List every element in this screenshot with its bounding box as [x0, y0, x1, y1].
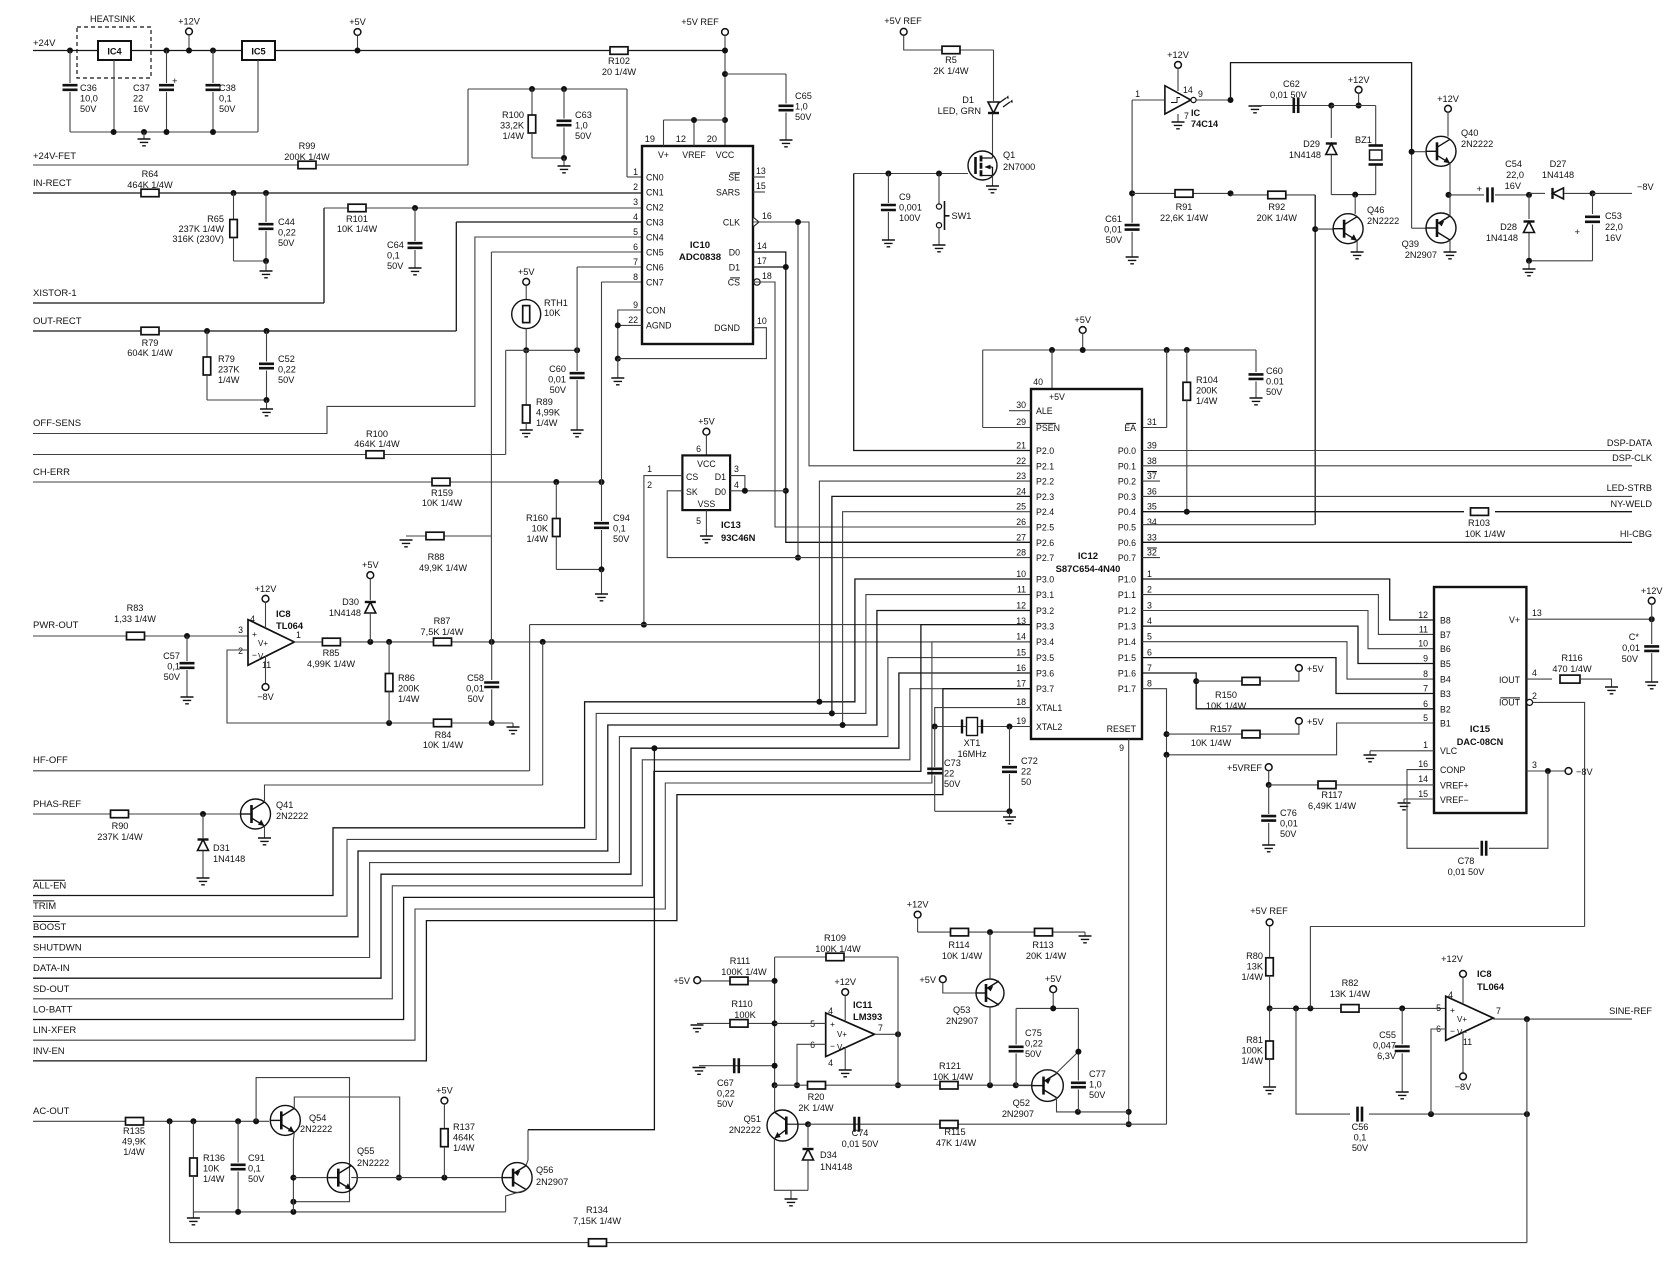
svg-text:R83: R83	[127, 603, 144, 613]
wire divider riser to RTH1 node	[505, 350, 507, 454]
svg-text:0,22: 0,22	[1025, 1038, 1043, 1048]
svg-text:16V: 16V	[1605, 233, 1622, 243]
svg-text:+: +	[1574, 227, 1580, 238]
wire CS to P2.5	[753, 282, 1031, 527]
wire P1.7 node drop to R115 line	[1166, 755, 1168, 1124]
wire D1 stub	[753, 266, 786, 268]
ground Q41 emitter	[264, 826, 266, 838]
resistor R134	[589, 1239, 607, 1247]
wire IC4 ground lead	[113, 60, 115, 132]
capacitor C73	[934, 727, 936, 768]
svg-text:13K 1/4W: 13K 1/4W	[1330, 989, 1371, 999]
svg-text:1,33 1/4W: 1,33 1/4W	[114, 614, 156, 624]
svg-text:Q46: Q46	[1367, 205, 1384, 215]
resistor R20	[808, 1082, 826, 1090]
net C74 R115 line	[808, 1123, 1167, 1125]
svg-text:VCC: VCC	[716, 150, 735, 160]
wire RTH1 node	[506, 349, 577, 351]
wire Q51 emitter to ground rail	[774, 1139, 808, 1191]
svg-text:R101: R101	[346, 214, 368, 224]
svg-text:237K: 237K	[218, 364, 240, 374]
svg-text:5: 5	[1147, 632, 1152, 642]
junction R79 shunt top	[204, 328, 210, 334]
svg-text:10K: 10K	[544, 308, 561, 318]
svg-text:RTH1: RTH1	[544, 298, 568, 308]
svg-text:49,9K: 49,9K	[122, 1136, 147, 1146]
svg-text:CN3: CN3	[646, 218, 664, 228]
svg-text:5: 5	[696, 516, 701, 526]
svg-text:P1.0: P1.0	[1118, 575, 1136, 585]
svg-text:LIN-XFER: LIN-XFER	[33, 1025, 76, 1036]
capacitor C62	[1255, 105, 1331, 107]
wire C54 to D27	[1495, 194, 1529, 196]
svg-text:+5V: +5V	[698, 417, 715, 427]
junction Q51 base D34	[805, 1121, 811, 1127]
svg-text:DSP-DATA: DSP-DATA	[1607, 438, 1653, 448]
svg-text:−8V: −8V	[1637, 182, 1654, 192]
svg-text:C36: C36	[80, 83, 97, 93]
svg-text:26: 26	[1016, 517, 1026, 527]
svg-text:C61: C61	[1105, 214, 1122, 224]
svg-text:50V: 50V	[944, 779, 961, 789]
diode D31	[202, 814, 204, 838]
svg-text:R5: R5	[945, 55, 957, 65]
wire CLK to P2.1	[753, 222, 1031, 466]
capacitor C94	[601, 482, 603, 521]
wire +5VREF node R117	[1265, 764, 1272, 771]
resistor R136	[192, 1121, 194, 1158]
svg-text:C65: C65	[795, 91, 812, 101]
wire IC5 ground lead	[257, 60, 259, 132]
wire DGND route	[618, 328, 767, 359]
resistor R91 line	[1132, 192, 1230, 194]
svg-text:50V: 50V	[164, 672, 181, 682]
svg-text:0,1: 0,1	[219, 93, 232, 103]
svg-text:P0.3: P0.3	[1118, 492, 1136, 502]
wire CN7 riser to CH-ERR node	[602, 281, 643, 283]
svg-text:464K 1/4W: 464K 1/4W	[354, 439, 400, 449]
svg-text:50V: 50V	[1266, 387, 1283, 397]
svg-text:2: 2	[1147, 585, 1152, 595]
svg-text:C77: C77	[1089, 1069, 1106, 1079]
net R20 line	[775, 1084, 898, 1086]
svg-text:50V: 50V	[387, 261, 404, 271]
svg-text:V+: V+	[1457, 1015, 1467, 1024]
svg-text:LO-BATT: LO-BATT	[33, 1005, 73, 1016]
svg-text:27: 27	[1016, 532, 1026, 542]
ground C65	[780, 140, 793, 147]
svg-text:7: 7	[1184, 111, 1189, 121]
svg-text:B8: B8	[1440, 616, 1451, 626]
svg-text:237K 1/4W: 237K 1/4W	[179, 224, 225, 234]
power +5V terminal IC13	[703, 428, 710, 435]
svg-text:PWR-OUT: PWR-OUT	[33, 620, 79, 631]
svg-text:C54: C54	[1505, 159, 1522, 169]
svg-text:SK: SK	[686, 487, 698, 497]
wire C65 branch	[725, 73, 786, 75]
svg-text:2: 2	[647, 480, 652, 490]
svg-text:8: 8	[1423, 669, 1428, 679]
svg-text:6: 6	[633, 242, 638, 252]
svg-text:4: 4	[1532, 668, 1537, 678]
wire Q52 collector to C77 node	[1057, 1052, 1079, 1073]
svg-text:+5V: +5V	[349, 17, 366, 27]
svg-text:0,22: 0,22	[278, 364, 296, 374]
wire EA tie	[1166, 350, 1168, 428]
svg-text:DGND: DGND	[714, 323, 740, 333]
svg-text:1,0: 1,0	[575, 120, 588, 130]
capacitor C56	[1358, 1107, 1363, 1122]
svg-text:14: 14	[1016, 632, 1026, 642]
svg-text:49,9K 1/4W: 49,9K 1/4W	[419, 563, 467, 573]
svg-text:0,01: 0,01	[548, 374, 566, 384]
svg-text:C44: C44	[278, 217, 295, 227]
svg-text:P3.0: P3.0	[1036, 575, 1054, 585]
svg-text:R100: R100	[502, 110, 524, 120]
svg-text:B1: B1	[1440, 719, 1451, 729]
svg-text:50V: 50V	[468, 694, 485, 704]
resistor R90	[111, 810, 129, 818]
resistor R113	[1035, 928, 1053, 936]
svg-text:SD-OUT: SD-OUT	[33, 984, 70, 995]
resistor R101	[324, 207, 642, 209]
svg-text:1/4W: 1/4W	[1196, 396, 1218, 406]
svg-text:+12V: +12V	[1167, 50, 1190, 60]
svg-text:16MHz: 16MHz	[957, 749, 987, 759]
svg-text:RESET: RESET	[1107, 724, 1137, 734]
svg-text:1: 1	[296, 630, 301, 640]
svg-text:22: 22	[1021, 766, 1031, 776]
svg-text:−: −	[252, 650, 257, 660]
power +5V terminal	[354, 29, 361, 36]
wire D28-C53 bottom tie	[1529, 260, 1593, 262]
ground R113	[1084, 932, 1086, 936]
svg-text:32: 32	[1147, 548, 1157, 558]
svg-text:0,01 50V: 0,01 50V	[1270, 90, 1308, 100]
wire bottom rail	[193, 1211, 505, 1213]
svg-text:0,1: 0,1	[1354, 1132, 1367, 1142]
net SINE-REF output	[1493, 1018, 1632, 1020]
svg-text:1/4W: 1/4W	[1242, 1056, 1264, 1066]
svg-text:C57: C57	[163, 651, 180, 661]
wire C56 branch	[1296, 1008, 1350, 1114]
svg-text:0,01: 0,01	[1280, 818, 1298, 828]
junction C57 top	[184, 633, 190, 639]
resistor R92	[1231, 194, 1316, 196]
capacitor C75	[1015, 1008, 1017, 1044]
pin IC10 top pins 19 12 20	[663, 120, 665, 146]
svg-text:3: 3	[734, 464, 739, 474]
net DSP-DATA	[1142, 450, 1632, 452]
svg-text:29: 29	[1016, 417, 1026, 427]
wire +5VREF vertical to IC10 VCC	[724, 36, 726, 147]
svg-text:50V: 50V	[248, 1174, 265, 1184]
ground crystal	[1009, 811, 1011, 817]
svg-text:0,1: 0,1	[167, 661, 180, 671]
svg-text:P3.3: P3.3	[1036, 622, 1054, 632]
svg-text:10K 1/4W: 10K 1/4W	[933, 1072, 974, 1082]
svg-text:1N4148: 1N4148	[1486, 233, 1518, 243]
svg-text:1: 1	[647, 464, 652, 474]
svg-text:11: 11	[1419, 624, 1428, 634]
resistor R150 pullup	[1196, 680, 1281, 682]
svg-text:1/4W: 1/4W	[203, 1174, 225, 1184]
capacitor C60 micro	[1255, 350, 1257, 372]
wire Q52 net	[1016, 1085, 1032, 1087]
wire Q51 collector from R20 node	[774, 1085, 776, 1112]
svg-text:C*: C*	[1629, 632, 1640, 642]
svg-text:10K: 10K	[203, 1163, 220, 1173]
svg-text:B5: B5	[1440, 659, 1451, 669]
svg-text:10K 1/4W: 10K 1/4W	[942, 951, 983, 961]
power +5V terminal IC12	[1079, 327, 1086, 334]
svg-text:Q41: Q41	[276, 800, 293, 810]
svg-text:9: 9	[633, 300, 638, 310]
svg-text:93C46N: 93C46N	[721, 532, 756, 543]
transistor Q55 2N2222	[327, 1163, 357, 1193]
svg-text:18: 18	[762, 271, 772, 281]
svg-text:100K: 100K	[734, 1010, 756, 1020]
svg-text:10,0: 10,0	[80, 93, 98, 103]
net R134 line	[170, 1242, 1527, 1244]
svg-text:4: 4	[1448, 990, 1453, 1000]
svg-text:P3.2: P3.2	[1036, 606, 1054, 616]
svg-text:R136: R136	[203, 1153, 225, 1163]
svg-text:14: 14	[1418, 774, 1428, 784]
svg-text:+5V: +5V	[1074, 315, 1091, 325]
svg-text:C58: C58	[467, 673, 484, 683]
wire C61 input node	[1131, 100, 1133, 223]
svg-text:50V: 50V	[1622, 654, 1639, 664]
wire P0.5 riser	[1142, 524, 1314, 526]
svg-text:74C14: 74C14	[1191, 119, 1219, 129]
transistor Q41 2N2222	[241, 799, 271, 829]
wire IC11 -input	[797, 1044, 826, 1085]
wire Q1 gate line	[854, 173, 968, 175]
svg-text:34: 34	[1147, 517, 1157, 527]
wire Q54 collector loop	[294, 1097, 399, 1178]
svg-text:100K 1/4W: 100K 1/4W	[721, 967, 767, 977]
svg-text:12: 12	[1418, 610, 1428, 620]
svg-text:0,01 50V: 0,01 50V	[842, 1139, 880, 1149]
svg-text:10K 1/4W: 10K 1/4W	[1206, 701, 1247, 711]
svg-text:P0.7: P0.7	[1118, 553, 1136, 563]
svg-text:IC10: IC10	[690, 240, 710, 251]
svg-text:18: 18	[1016, 697, 1026, 707]
svg-text:P2.5: P2.5	[1036, 523, 1054, 533]
wire CLK to P2.7 branch	[797, 222, 799, 558]
svg-text:31: 31	[1147, 417, 1157, 427]
svg-text:0,001: 0,001	[899, 202, 922, 212]
svg-text:3: 3	[1147, 601, 1152, 611]
svg-text:0,1: 0,1	[613, 523, 626, 533]
resistor R81	[1269, 1008, 1271, 1041]
svg-text:5: 5	[1436, 1003, 1441, 1013]
svg-text:R90: R90	[112, 821, 129, 831]
transistor Q51 2N2222	[767, 1110, 798, 1141]
svg-text:P0.1: P0.1	[1118, 461, 1136, 471]
svg-text:2: 2	[633, 182, 638, 192]
svg-text:R114: R114	[948, 940, 969, 950]
svg-text:V+: V+	[837, 1030, 847, 1039]
svg-text:1/4W: 1/4W	[1242, 972, 1264, 982]
capacitor C58	[491, 642, 493, 680]
resistor R137	[441, 1097, 448, 1104]
heatsink dashed outline	[77, 27, 151, 78]
wire AC-OUT to R134 line	[169, 1121, 171, 1242]
svg-text:20K 1/4W: 20K 1/4W	[1257, 213, 1298, 223]
svg-text:−8V: −8V	[1455, 1082, 1472, 1092]
svg-text:R92: R92	[1268, 202, 1285, 212]
wire SW1 to ground	[938, 228, 940, 245]
svg-text:100V: 100V	[899, 213, 921, 223]
junction C38 top	[210, 48, 216, 54]
svg-text:12: 12	[1016, 601, 1026, 611]
resistor R135	[126, 1118, 144, 1126]
ground D31	[197, 878, 210, 885]
svg-text:Q56: Q56	[536, 1165, 553, 1175]
svg-text:C76: C76	[1280, 808, 1297, 818]
svg-text:C75: C75	[1025, 1028, 1042, 1038]
svg-text:0,01: 0,01	[1104, 224, 1122, 234]
ground C76	[1262, 845, 1275, 852]
svg-text:1/4W: 1/4W	[536, 418, 558, 428]
svg-text:R80: R80	[1246, 951, 1263, 961]
svg-text:13K: 13K	[1247, 961, 1264, 971]
svg-text:1/4W: 1/4W	[218, 375, 240, 385]
wire Q54 bias loop	[256, 1078, 349, 1202]
capacitor C78 loop	[1407, 770, 1479, 849]
svg-text:R103: R103	[1468, 518, 1490, 528]
svg-text:R85: R85	[323, 648, 340, 658]
ground C44	[265, 261, 267, 271]
svg-text:2: 2	[238, 646, 243, 656]
svg-text:XT1: XT1	[964, 738, 981, 748]
capacitor C60 adc	[576, 350, 578, 371]
wire Q39 base	[1411, 152, 1413, 229]
svg-text:1/4W: 1/4W	[453, 1143, 475, 1153]
svg-text:22: 22	[628, 315, 638, 325]
svg-text:VCC: VCC	[697, 459, 716, 469]
svg-text:0,01: 0,01	[466, 683, 484, 693]
svg-text:16: 16	[1016, 663, 1026, 673]
svg-text:R111: R111	[730, 956, 751, 966]
svg-text:+12V: +12V	[1641, 586, 1664, 596]
svg-text:IN-RECT: IN-RECT	[33, 178, 72, 189]
transistor Q52 2N2907	[1032, 1070, 1064, 1102]
svg-text:P1.6: P1.6	[1118, 669, 1136, 679]
power +5V terminal R157	[1281, 725, 1299, 735]
svg-text:R109: R109	[824, 933, 846, 943]
svg-text:+5V: +5V	[1045, 974, 1062, 984]
svg-text:P2.4: P2.4	[1036, 507, 1054, 517]
op IC15 DAC-08CN box	[1434, 587, 1526, 813]
svg-text:13: 13	[756, 166, 766, 176]
svg-text:R88: R88	[428, 552, 445, 562]
op-amp IC8a TL064	[248, 620, 294, 666]
pin P0.7 stub	[1142, 557, 1160, 559]
svg-text:1N4148: 1N4148	[820, 1162, 852, 1172]
svg-text:5: 5	[1423, 713, 1428, 723]
svg-text:IC8: IC8	[276, 608, 291, 619]
net R88 divider to CN5	[400, 540, 413, 547]
junction C44 top	[263, 190, 269, 196]
svg-text:3: 3	[238, 625, 243, 635]
svg-text:B2: B2	[1440, 704, 1451, 714]
svg-text:464K 1/4W: 464K 1/4W	[127, 180, 173, 190]
net R87 line to P3.4	[340, 641, 1031, 643]
op IC13 93C46N box	[682, 455, 730, 510]
svg-text:+5V REF: +5V REF	[681, 17, 719, 27]
ground Q39 collector	[1449, 240, 1451, 252]
svg-text:100K: 100K	[1242, 1045, 1264, 1055]
wire top tie D29 BZ1	[1331, 105, 1375, 107]
svg-text:−: −	[830, 1041, 835, 1051]
svg-text:−: −	[1450, 1026, 1455, 1036]
wire Q53 collector down	[989, 1007, 991, 1085]
ground C62	[1249, 106, 1262, 113]
net R114 R113 line	[918, 931, 1085, 933]
svg-text:P0.5: P0.5	[1118, 523, 1136, 533]
junction R91-R92	[1228, 190, 1234, 196]
svg-text:1: 1	[1423, 740, 1428, 750]
wire CN5 riser	[490, 252, 492, 536]
wire R160-C94 bottom tie	[556, 568, 601, 570]
svg-text:4,99K: 4,99K	[536, 407, 561, 417]
wire Q56 collector up	[526, 1130, 528, 1166]
ground R81	[1263, 1087, 1276, 1094]
svg-text:D29: D29	[1303, 139, 1320, 149]
resistor R82	[1341, 1005, 1359, 1013]
svg-text:23: 23	[1016, 471, 1026, 481]
capacitor C63	[563, 89, 565, 119]
ground R84	[512, 723, 514, 727]
svg-text:IC8: IC8	[1477, 968, 1492, 979]
svg-text:CN2: CN2	[646, 203, 664, 213]
svg-text:P0.4: P0.4	[1118, 507, 1136, 517]
svg-text:2N2222: 2N2222	[357, 1158, 389, 1168]
svg-text:20 1/4W: 20 1/4W	[602, 67, 637, 77]
svg-text:VSS: VSS	[698, 499, 716, 509]
svg-text:6: 6	[696, 444, 701, 454]
svg-text:1N4148: 1N4148	[213, 854, 245, 864]
svg-text:CLK: CLK	[723, 218, 740, 228]
svg-text:IOUT: IOUT	[1499, 698, 1521, 708]
svg-text:C67: C67	[717, 1078, 734, 1088]
power +12V terminal Q53	[914, 911, 921, 918]
svg-text:V+: V+	[658, 150, 669, 160]
svg-text:+24V-FET: +24V-FET	[33, 151, 76, 162]
wire Q41 collector to P3.4 net	[265, 785, 543, 802]
ground C57	[181, 697, 194, 704]
svg-text:30: 30	[1016, 400, 1026, 410]
svg-text:C60: C60	[549, 364, 566, 374]
svg-text:CN1: CN1	[646, 188, 664, 198]
capacitor C53 polarized	[1592, 193, 1594, 214]
ground 74C14	[1177, 114, 1179, 122]
svg-text:25: 25	[1016, 502, 1026, 512]
svg-text:19: 19	[645, 134, 655, 144]
svg-text:R102: R102	[608, 56, 630, 66]
svg-text:+5V: +5V	[673, 976, 690, 986]
svg-text:50V: 50V	[278, 238, 295, 248]
svg-text:11: 11	[1463, 1037, 1472, 1047]
svg-text:TRIM: TRIM	[33, 901, 56, 912]
transistor Q56 2N2907	[502, 1163, 532, 1193]
svg-text:P2.1: P2.1	[1036, 461, 1054, 471]
junction D31 top	[200, 811, 206, 817]
svg-text:+5VREF: +5VREF	[1227, 763, 1262, 773]
